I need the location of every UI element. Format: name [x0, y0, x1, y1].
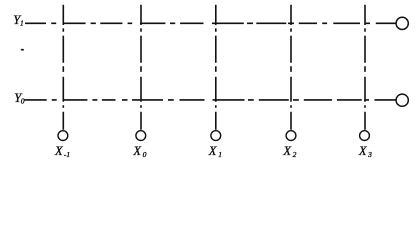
node continuation dot between Y1 and Y0 — [21, 49, 24, 51]
terminal circle Y0 (right end) — [396, 94, 408, 106]
terminal circle X2 (bottom) — [286, 131, 296, 141]
wire X3 column (dash-dot vertical) — [364, 5, 366, 130]
wire Y1 row bus (dash-dot horizontal) — [25, 22, 396, 24]
wire X0 column (dash-dot vertical) — [140, 5, 142, 130]
svg-text:0: 0 — [21, 96, 25, 105]
svg-text:-1: -1 — [64, 150, 70, 159]
terminal circle X3 (bottom) — [360, 131, 370, 141]
label X0 — [132, 144, 146, 159]
label Y1 — [13, 13, 24, 27]
terminal circle X1 (bottom) — [211, 131, 221, 141]
label X2 — [282, 144, 296, 159]
wire X-1 column (dash-dot vertical) — [62, 5, 64, 130]
svg-text:3: 3 — [367, 150, 372, 159]
terminal circle X0 (bottom) — [136, 131, 146, 141]
svg-text:0: 0 — [143, 150, 147, 159]
label Y0 — [14, 91, 25, 105]
label X-1 — [54, 144, 70, 159]
svg-text:X: X — [282, 144, 292, 158]
svg-text:X: X — [54, 144, 64, 158]
svg-text:1: 1 — [218, 150, 222, 159]
svg-text:X: X — [208, 144, 218, 158]
terminal circle X-1 (bottom) — [58, 131, 68, 141]
wire Y0 row bus (dash-dot horizontal) — [24, 99, 396, 101]
label X3 — [358, 144, 372, 159]
wire X1 column (dash-dot vertical) — [215, 5, 217, 130]
wire X2 column (dash-dot vertical) — [290, 5, 292, 130]
svg-text:X: X — [358, 144, 368, 158]
label X1 — [208, 144, 222, 159]
svg-text:X: X — [132, 144, 142, 158]
svg-text:1: 1 — [20, 19, 24, 28]
terminal circle Y1 (right end) — [396, 17, 408, 29]
svg-text:2: 2 — [293, 150, 297, 159]
